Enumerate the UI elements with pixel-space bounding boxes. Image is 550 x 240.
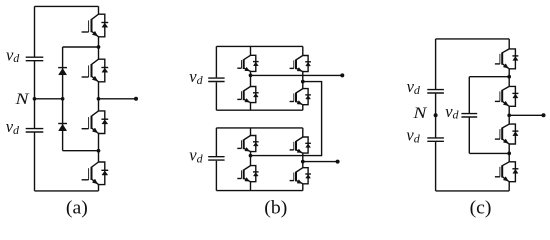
igbt Q2 (b) with antiparallel diode	[237, 87, 258, 103]
svg-text:(a): (a)	[66, 198, 88, 218]
clamping diode D5	[58, 68, 67, 75]
wire output (c)	[509, 114, 543, 116]
wire bottom rail lower H-bridge (b)	[216, 190, 302, 192]
wire S2-S3 junction lead (a)	[98, 82, 100, 111]
wire neutral N to clamp string (a)	[35, 98, 63, 100]
caption (b)	[264, 198, 287, 218]
wire left dc rail upper H-bridge (b)	[215, 46, 217, 110]
svg-text:d: d	[414, 131, 421, 145]
svg-text:(c): (c)	[470, 198, 492, 218]
svg-text:d: d	[414, 83, 421, 97]
igbt S3 (a) with antiparallel diode	[82, 111, 109, 134]
igbt S1 (c) with antiparallel diode	[495, 49, 519, 69]
wire flying-cap loop bottom (c)	[469, 152, 509, 154]
wire emitter lead left-bottom upper (b)	[250, 103, 252, 111]
svg-text:d: d	[13, 51, 20, 65]
output terminal dot upper (b)	[340, 73, 344, 77]
wire upper clamp connection (a)	[63, 46, 99, 48]
capacitor Cd2 (c)	[427, 138, 444, 141]
wire emitter lead S4 (c)	[508, 182, 510, 191]
wire S3-S4 junction lead (c)	[508, 144, 510, 162]
igbt S2 (a) with antiparallel diode	[82, 59, 109, 82]
label vd upper (c)	[407, 77, 421, 97]
wire lower clamp connection (a)	[63, 150, 99, 152]
label vd upper (a)	[6, 45, 20, 65]
clamping diode D6	[58, 124, 67, 131]
wire left leg midpoint lead upper (b)	[250, 71, 252, 86]
label vd upper (b)	[189, 67, 203, 87]
igbt S3 (c) with antiparallel diode	[495, 124, 519, 144]
output terminal dot (a)	[134, 97, 138, 101]
svg-text:d: d	[13, 123, 20, 137]
wire right leg midpoint lead lower (b)	[302, 153, 304, 168]
label vd lower (a)	[6, 117, 20, 137]
node S3/S4 junction dot (a)	[97, 149, 101, 153]
node left leg midpoint dot upper (b)	[249, 74, 253, 78]
node right leg midpoint dot upper (b)	[301, 80, 305, 84]
igbt S4 (c) with antiparallel diode	[495, 162, 519, 182]
node S1/S2 junction dot (a)	[97, 45, 101, 49]
node N junction dot (c)	[434, 113, 438, 117]
igbt Q6 (b) with antiparallel diode	[237, 166, 258, 182]
wire clamp diode string vertical (a)	[62, 47, 64, 151]
node right leg midpoint dot lower (b)	[301, 160, 305, 164]
igbt S2 (c) with antiparallel diode	[495, 86, 519, 106]
wire right leg midpoint lead upper (b)	[302, 72, 304, 89]
igbt S1 (a) with antiparallel diode	[82, 14, 109, 37]
output terminal dot (c)	[542, 113, 546, 117]
wire left leg midpoint lead lower (b)	[250, 152, 252, 166]
igbt Q4 (b) with antiparallel diode	[290, 89, 311, 105]
wire flying-cap loop left (c)	[468, 77, 470, 154]
caption (c)	[470, 198, 492, 218]
wire inter-cell link (b)	[251, 82, 322, 156]
wire top rail upper H-bridge (b)	[216, 45, 302, 47]
wire bottom rail (c)	[436, 190, 510, 192]
wire S1-S2 junction lead (a)	[98, 37, 100, 59]
capacitor Cf flying (c)	[461, 114, 477, 117]
capacitor Cd2 (a)	[26, 129, 44, 132]
wire collector lead left-top upper (b)	[250, 46, 252, 55]
label vd lower (b)	[189, 146, 203, 166]
wire collector lead S1 (c)	[508, 39, 510, 49]
node clamp-string junction dot (a)	[61, 97, 65, 101]
capacitor C1 (b)	[208, 78, 224, 81]
node S3/S4 junction dot (c)	[507, 152, 511, 156]
wire left dc rail lower H-bridge (b)	[215, 128, 217, 191]
wire collector lead right-top upper (b)	[302, 46, 304, 55]
wire bottom rail upper H-bridge (b)	[216, 109, 302, 111]
wire left dc-link rail (a)	[34, 6, 36, 191]
capacitor C2 (b)	[208, 157, 224, 160]
wire top rail (a)	[35, 5, 99, 7]
label vd lower (c)	[406, 126, 420, 146]
igbt Q8 (b) with antiparallel diode	[290, 168, 311, 184]
igbt Q7 (b) with antiparallel diode	[290, 137, 311, 153]
node left leg midpoint dot lower (b)	[249, 154, 253, 158]
output terminal dot lower (b)	[336, 160, 340, 164]
wire emitter lead S4 (a)	[98, 185, 100, 191]
capacitor Cd1 (a)	[26, 57, 44, 61]
wire collector lead S1 (a)	[98, 6, 100, 14]
igbt Q3 (b) with antiparallel diode	[290, 56, 311, 72]
wire collector lead right-top lower (b)	[302, 128, 304, 137]
wire emitter lead right-bottom lower (b)	[302, 184, 304, 191]
wire bottom rail (a)	[35, 190, 99, 192]
node N junction dot (a)	[33, 97, 37, 101]
wire S3-S4 junction lead (a)	[98, 134, 100, 163]
wire top rail (c)	[436, 38, 510, 40]
svg-text:N: N	[412, 104, 427, 122]
svg-text:(b): (b)	[264, 198, 287, 218]
igbt Q5 (b) with antiparallel diode	[237, 136, 258, 152]
svg-text:d: d	[197, 73, 204, 87]
capacitor Cd1 (c)	[427, 90, 444, 93]
igbt S4 (a) with antiparallel diode	[82, 162, 109, 185]
wire output upper cell to terminal (b)	[251, 74, 343, 76]
svg-text:N: N	[14, 89, 29, 107]
wire flying-cap loop top (c)	[469, 76, 509, 78]
label N (c)	[412, 104, 427, 122]
svg-text:d: d	[453, 108, 460, 122]
node S1/S2 junction dot (c)	[507, 75, 511, 79]
wire S1-S2 junction lead (c)	[508, 69, 510, 87]
wire top rail lower H-bridge (b)	[216, 127, 302, 129]
wire left dc-link rail (c)	[435, 39, 437, 191]
caption (a)	[66, 198, 88, 218]
svg-text:d: d	[197, 152, 204, 166]
wire emitter lead left-bottom lower (b)	[250, 182, 252, 191]
label vd flying (c)	[445, 102, 459, 122]
node output junction dot (a)	[97, 97, 101, 101]
wire emitter lead right-bottom upper (b)	[302, 105, 304, 111]
igbt Q1 (b) with antiparallel diode	[237, 55, 258, 71]
wire collector lead left-top lower (b)	[250, 128, 252, 136]
wire output (a)	[99, 98, 137, 100]
wire S2-S3 junction lead (c)	[508, 106, 510, 124]
label N (a)	[14, 89, 29, 107]
wire lower cell output to terminal (b)	[303, 161, 338, 163]
node output junction dot (c)	[507, 113, 511, 117]
